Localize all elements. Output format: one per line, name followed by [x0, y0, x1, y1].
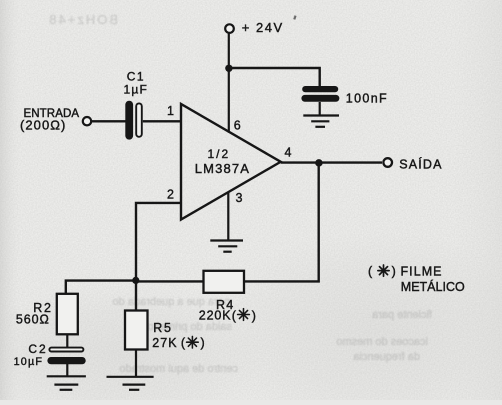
svg-text:560Ω: 560Ω: [16, 313, 50, 327]
label 27K (✳): [152, 336, 204, 350]
capacitor 100nF: [301, 86, 339, 102]
svg-text:): ): [252, 309, 256, 323]
terminal +24V: [225, 24, 234, 33]
wire pin 3 to ground: [227, 192, 229, 242]
svg-text:2: 2: [167, 188, 174, 202]
capacitor C2: [47, 348, 85, 365]
junction supply node: [225, 65, 232, 72]
svg-text:1: 1: [167, 104, 174, 118]
capacitor C1: [125, 101, 142, 140]
wire pin 2 to bias junction: [136, 203, 181, 281]
svg-text:3: 3: [236, 191, 243, 205]
svg-text:): ): [392, 265, 396, 279]
terminal SAÍDA: [383, 158, 392, 167]
svg-text:BOHz+48: BOHz+48: [47, 12, 118, 27]
svg-text:1µF: 1µF: [124, 83, 149, 97]
svg-text:1/2: 1/2: [208, 147, 231, 161]
ground C2: [47, 376, 86, 390]
junction bias node: [132, 277, 139, 284]
svg-text:SAÍDA: SAÍDA: [399, 156, 443, 171]
wire R5 to ground: [135, 350, 137, 377]
svg-text:C1: C1: [127, 69, 145, 83]
svg-text:saida do primeiro: saida do primeiro: [148, 321, 232, 333]
svg-text:C2: C2: [28, 342, 47, 356]
wire C1 to pin 1: [143, 120, 181, 122]
wire R2 to C2: [66, 334, 68, 347]
svg-text:+ 24V: + 24V: [242, 20, 284, 35]
junction output node: [315, 159, 323, 167]
faint page bleed-through (decorative): [47, 12, 432, 375]
wire +24V terminal down to pin 6: [228, 32, 230, 132]
wire supply junction to capacitor 100nF: [229, 68, 320, 87]
svg-text:27K: 27K: [152, 336, 177, 350]
wire C2 to ground: [66, 364, 68, 377]
svg-text:): ): [201, 336, 205, 350]
svg-text:FILME: FILME: [401, 264, 443, 278]
resistor R4: [204, 271, 245, 293]
svg-text:LM387A: LM387A: [195, 161, 250, 176]
svg-text:(200Ω): (200Ω): [20, 118, 66, 133]
wire output junction down and left to R4: [244, 163, 319, 282]
svg-text:6: 6: [234, 118, 241, 132]
op-amp U1 1/2 LM387A: [181, 104, 281, 220]
wire 100nF to ground: [319, 102, 321, 116]
svg-text:10µF: 10µF: [14, 356, 44, 368]
svg-text:100nF: 100nF: [346, 92, 388, 106]
svg-text:da frequencia: da frequencia: [352, 351, 420, 363]
svg-text:ficiente para: ficiente para: [371, 309, 432, 321]
label (✳) FILME METÁLICO: [368, 264, 465, 294]
svg-text:centro de aqui mostrado: centro de aqui mostrado: [119, 363, 238, 375]
resistor R2: [57, 294, 78, 335]
wire pin 4 to SAÍDA terminal: [281, 161, 382, 163]
wire input terminal to C1: [91, 120, 126, 122]
ground 100nF: [303, 116, 339, 127]
ground R5: [107, 377, 154, 390]
resistor R5: [125, 311, 148, 350]
wire R4 to bias junction: [136, 280, 204, 282]
svg-text:icacoes do mesmo: icacoes do mesmo: [336, 336, 428, 348]
label 220K (✳): [199, 309, 256, 323]
terminal ENTRADA: [83, 117, 91, 125]
speck near top: [293, 15, 296, 19]
svg-text:4: 4: [285, 146, 292, 160]
svg-text:METÁLICO: METÁLICO: [401, 279, 465, 294]
wire bias junction to R2: [66, 281, 136, 294]
svg-text:para que a quebrada do: para que a quebrada do: [113, 296, 230, 308]
wire bias junction to R5: [135, 281, 137, 311]
ground pin 3: [210, 241, 243, 252]
